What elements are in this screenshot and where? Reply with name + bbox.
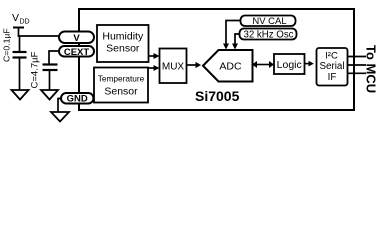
svg-text:ADC: ADC [219,61,242,73]
svg-text:Si7005: Si7005 [195,88,240,104]
capacitor C2 4.7uF plates [43,65,58,71]
node VDD label [12,12,30,26]
block Logic [274,54,305,74]
svg-text:Temperature: Temperature [98,74,145,84]
block I2C Serial IF [317,48,348,86]
wire Osc to ADC [235,34,240,44]
svg-text:Serial: Serial [319,61,344,72]
chip outline Si7005 [79,9,354,110]
ground G3 [51,112,69,122]
block NV CAL [241,16,296,28]
svg-text:IF: IF [328,72,337,83]
svg-text:DD: DD [20,19,30,26]
wire ADC to Logic bidirectional [252,61,274,68]
capacitor C1 0.1uF plates [13,52,27,58]
block Humidity Sensor [97,25,149,62]
VDD terminal tick [13,27,24,29]
wire humidity to MUX [149,55,155,57]
wire GND pin to ground [58,99,62,113]
svg-text:MUX: MUX [162,62,185,73]
svg-text:C=4.7µF: C=4.7µF [30,51,41,88]
wire CEXT to C2 [49,51,59,64]
pin V [59,32,94,45]
svg-text:V: V [73,33,80,44]
ADC converter [203,50,253,82]
svg-text:To MCU: To MCU [364,45,379,93]
ground G2 [41,90,58,100]
wire MUX to ADC [187,64,197,66]
svg-text:NV CAL: NV CAL [252,16,286,27]
wire rail down to C1 [19,36,21,52]
svg-text:Logic: Logic [277,59,302,71]
svg-text:32 kHz Osc: 32 kHz Osc [243,29,293,40]
wire temperature to MUX [148,67,155,69]
svg-text:Humidity: Humidity [102,31,144,43]
wire Logic to Serial IF bidirectional [305,61,314,67]
wire C2 to ground [49,70,51,90]
svg-text:C=0.1µF: C=0.1µF [2,28,12,62]
wire C1 to ground [19,58,21,91]
wire serial line 3 to MCU [348,72,366,74]
block MUX [160,49,187,84]
wire VDD down to rail [18,28,20,38]
svg-text:GND: GND [67,94,88,105]
wire serial line 1 to MCU [348,56,366,58]
wire VDD rail to V pin [18,35,60,37]
svg-text:CEXT: CEXT [64,47,90,58]
pin GND [61,93,94,105]
svg-text:V: V [12,12,19,24]
pin CEXT [59,46,94,58]
svg-text:Sensor: Sensor [106,43,140,55]
svg-text:Sensor: Sensor [104,85,138,97]
wire NV CAL to ADC [226,21,241,45]
block Temperature Sensor [94,68,148,103]
wire serial line 2 to MCU [348,64,366,66]
block 32 kHz Osc [240,29,297,41]
ground G1 [12,90,29,100]
